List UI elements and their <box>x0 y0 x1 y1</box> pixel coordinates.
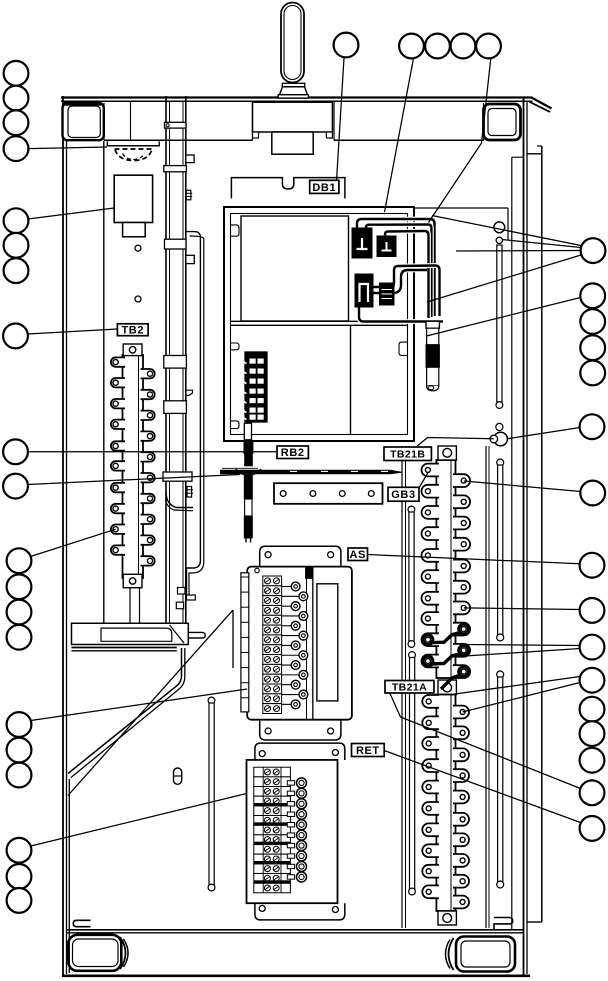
AS terminal rows <box>263 576 282 586</box>
callout balloon <box>4 258 29 283</box>
leader line <box>465 645 580 646</box>
label AS <box>348 548 368 561</box>
label TB21A <box>385 681 434 694</box>
standoff rod B <box>497 459 504 466</box>
left mounting plate edge <box>103 141 105 623</box>
bottom-right mounting pad <box>456 937 515 972</box>
AS ring terminals <box>282 586 292 588</box>
handle mount block <box>253 102 333 132</box>
diode connector CR2 <box>377 236 396 257</box>
channel pin <box>187 595 196 600</box>
ground plate GB3 <box>274 483 383 504</box>
handle grip <box>281 3 304 83</box>
handle mount lower plate <box>272 132 313 154</box>
terminal block TB2 <box>123 355 144 578</box>
callout balloon <box>7 838 32 863</box>
rail bolt b <box>187 487 192 498</box>
leader line <box>463 683 580 713</box>
callout balloon <box>580 309 605 334</box>
rail tab b <box>186 255 195 263</box>
callout balloon <box>7 763 32 788</box>
label RB2 <box>277 446 308 459</box>
callout balloon <box>476 34 501 59</box>
leader line <box>28 147 107 149</box>
svg-text:TB2: TB2 <box>121 325 144 337</box>
wire run W1 <box>357 219 435 316</box>
bus bar <box>221 470 402 474</box>
callout balloon <box>580 816 605 841</box>
standoff rod A <box>497 245 502 403</box>
GB3 hole <box>339 491 345 497</box>
panel fold diagonal pair <box>68 648 182 774</box>
TB21A bottom screw block <box>438 911 456 925</box>
callout balloon <box>580 414 605 439</box>
wire run W5 <box>373 270 427 293</box>
cable clamp bracket <box>414 207 508 209</box>
side bracket channel <box>186 232 201 600</box>
callout balloon <box>7 574 32 599</box>
leader TB21B elbow <box>416 438 494 448</box>
AS inner window <box>317 584 338 701</box>
channel tab a <box>178 588 186 595</box>
plate bottom tray <box>72 623 189 644</box>
tray side pin <box>188 632 205 638</box>
callout balloon <box>580 361 605 386</box>
RET module top plate <box>255 743 345 760</box>
DB1 left border slot a <box>231 225 240 236</box>
DB1 top bracket plate <box>231 178 345 199</box>
callout balloon <box>4 86 29 111</box>
jumper wires on TB21B bottom <box>423 635 433 645</box>
callout balloon <box>580 553 605 578</box>
callout balloon <box>580 721 605 746</box>
callout balloon <box>580 598 605 623</box>
AS left bracket <box>241 573 249 712</box>
leader line <box>456 250 581 253</box>
callout balloon <box>425 34 450 59</box>
leader line <box>31 794 247 847</box>
RET module body <box>247 760 338 903</box>
svg-text:DB1: DB1 <box>312 182 336 194</box>
diode connector CR3 <box>355 274 373 307</box>
tray corner brace <box>170 625 185 643</box>
callout balloon <box>399 34 424 59</box>
AS module body <box>247 567 352 720</box>
leader line <box>31 529 116 556</box>
callout balloon <box>7 600 32 625</box>
callout balloon <box>7 625 32 650</box>
callout balloon <box>4 233 29 258</box>
rail clamp 1 <box>165 122 187 128</box>
AS module bottom plate <box>260 720 341 740</box>
label GB3 <box>388 487 419 501</box>
rail clamp 6 <box>163 472 192 481</box>
callout balloon <box>580 668 605 693</box>
panel fold diagonal long <box>68 610 233 796</box>
leader line <box>427 255 581 302</box>
callout balloon <box>7 548 32 573</box>
GB3 hole <box>310 491 316 497</box>
callout balloon <box>4 110 29 135</box>
leader balloon-488 <box>429 58 491 222</box>
leader TB21A elbow <box>390 694 581 789</box>
callout balloon <box>580 283 605 308</box>
rail foot bend <box>166 492 193 508</box>
panel backplate outline <box>62 96 64 977</box>
callout balloon <box>4 136 29 161</box>
callout balloon <box>7 888 32 913</box>
leader line <box>502 240 581 248</box>
wire sleeve below connector <box>244 423 251 440</box>
svg-text:GB3: GB3 <box>391 489 415 501</box>
leader line <box>508 428 580 439</box>
DB1 left border slot c <box>231 421 240 429</box>
oval fastener <box>174 768 182 784</box>
bottom-left mounting pad <box>68 935 121 971</box>
label DB1 <box>310 180 339 193</box>
TB21 mounting plate edges <box>401 446 403 928</box>
TB2 bottom screw block <box>123 574 142 587</box>
RET terminal rows <box>254 767 291 777</box>
leader line <box>464 608 580 610</box>
DB1 connector strip <box>245 352 267 422</box>
callout balloon <box>7 738 32 763</box>
standoff rod left B <box>408 506 415 513</box>
rail bolt a <box>186 190 191 200</box>
callout balloon <box>580 635 605 660</box>
DB1 inner top-left box <box>241 216 349 321</box>
leader line <box>385 58 414 212</box>
callout balloon <box>451 34 476 59</box>
handle base <box>282 83 305 86</box>
cable sleeve with bands <box>426 321 439 328</box>
RET ring terminals <box>287 781 294 785</box>
clamp screw small <box>496 237 502 243</box>
vertical mounting rail <box>165 96 167 624</box>
DB1 vertical divider <box>350 325 352 434</box>
RET module bottom plate <box>255 903 345 920</box>
callout balloon <box>580 780 605 805</box>
callout balloon <box>4 208 29 233</box>
callout balloon <box>7 864 32 889</box>
leader line <box>432 216 581 246</box>
rail clamp 4 <box>164 356 187 369</box>
GB3 hole <box>280 491 286 497</box>
screw hole a <box>135 245 141 251</box>
svg-text:TB21B: TB21B <box>390 449 425 461</box>
TB21B top screw block <box>438 446 456 460</box>
diode module DB1 outer box <box>224 207 414 441</box>
rod grommet <box>494 432 508 446</box>
diode connector CR4 <box>380 283 395 305</box>
clamp screw <box>494 222 505 233</box>
terminal block TB21A <box>436 695 455 912</box>
relay box K1 <box>114 175 152 222</box>
svg-text:RET: RET <box>356 745 380 757</box>
leader line <box>368 555 580 564</box>
GB3 hole <box>368 491 374 497</box>
callout balloon <box>580 481 605 506</box>
leader line <box>427 298 581 337</box>
DB1 right border slot <box>399 342 408 355</box>
standoff rod C <box>497 671 504 678</box>
upper shelf band <box>104 139 253 141</box>
wire run W3 <box>385 231 429 318</box>
bottom-left clip bracket <box>73 920 90 926</box>
callout balloon <box>3 324 28 349</box>
channel tab b <box>176 602 183 609</box>
top-right mounting pad <box>484 104 521 140</box>
callout balloon <box>3 474 28 499</box>
rail clamp 3 <box>165 239 187 249</box>
leader line <box>464 481 581 492</box>
terminal block TB21B <box>436 460 455 678</box>
callout balloon <box>580 335 605 360</box>
rail clamp 5 <box>164 401 187 414</box>
callout balloon <box>581 238 606 263</box>
leader line <box>28 329 118 334</box>
standoff rod left C <box>409 652 416 659</box>
AS module top plate <box>260 546 341 568</box>
top-left mounting pad <box>63 103 104 140</box>
leader line <box>465 649 580 657</box>
bottom-right clip bracket <box>494 918 513 931</box>
center standoff rod <box>208 697 215 704</box>
callout balloon <box>334 33 359 58</box>
dashed grommet under shelf <box>107 141 159 146</box>
leader RET <box>384 751 580 823</box>
leader line <box>337 58 345 181</box>
screw hole b <box>135 296 141 302</box>
leader line <box>28 208 114 219</box>
label TB21B <box>384 447 431 461</box>
callout balloon <box>580 748 605 773</box>
rail clamp 2 <box>164 166 187 172</box>
leader line <box>28 475 241 485</box>
rail tab a <box>186 155 194 163</box>
leader line <box>455 677 580 695</box>
TB21B/A middle screw block <box>438 680 456 695</box>
TB2 top screw block <box>123 344 142 356</box>
wire run W2 <box>366 225 431 318</box>
wire run W4 <box>373 266 440 317</box>
leader line <box>31 689 247 721</box>
plate stem below TB2 <box>129 588 131 623</box>
svg-text:AS: AS <box>350 549 366 561</box>
leader GB3 <box>420 472 429 487</box>
label RET <box>352 744 385 757</box>
DB1 left border slot b <box>231 343 240 350</box>
svg-text:TB21A: TB21A <box>392 682 427 694</box>
DB1 horizontal divider <box>231 320 408 322</box>
callout balloon <box>7 712 32 737</box>
callout balloon <box>580 697 605 722</box>
callout balloon <box>4 61 29 86</box>
label TB2 <box>117 324 148 336</box>
callout balloon <box>3 439 28 464</box>
svg-text:RB2: RB2 <box>281 447 305 459</box>
leader line <box>28 451 278 453</box>
diode connector CR1 <box>352 228 372 258</box>
wire run W6 <box>359 307 443 322</box>
rail tab c <box>186 390 193 395</box>
